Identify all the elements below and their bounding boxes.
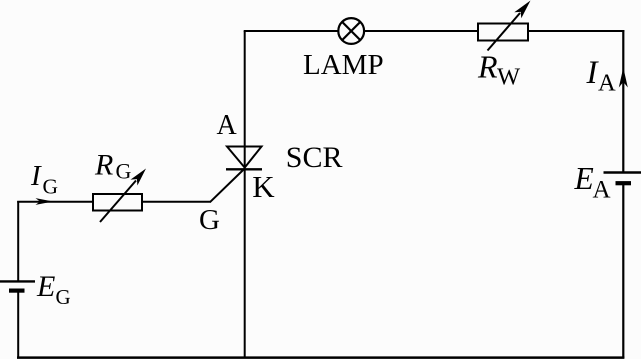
battery EA short plate (-) [616,181,632,185]
wire left upper (EG up to gate corner) [17,201,19,281]
wire top-left segment (node to lamp) [244,30,339,32]
wire right lower (EA down to bottom corner) [622,183,624,358]
wire top-middle segment (lamp to RW) [364,30,478,32]
anode wire (top node down through SCR) [244,31,246,168]
wire bottom [17,356,624,359]
svg-text:E: E [574,161,594,196]
rheostat RG wiper arrow [100,169,146,223]
svg-text:R: R [94,149,113,182]
wire right upper (corner down to EA) [622,30,624,173]
SCR cathode bar [226,168,262,170]
rheostat RW wiper arrow [488,1,531,51]
gate wire right segment [142,201,211,203]
rheostat RG body [93,194,142,211]
svg-text:G: G [56,285,71,309]
battery EG long plate (+) [0,280,35,282]
svg-text:R: R [477,49,498,85]
current arrow IA [619,68,628,88]
svg-text:I: I [30,160,42,192]
svg-text:A: A [593,177,611,204]
gate lead diagonal to SCR cathode [210,168,245,202]
battery EG short plate (-) [9,289,25,293]
svg-text:A: A [217,110,238,141]
lamp DS1 (circle with X) [338,18,364,44]
svg-text:K: K [252,169,275,204]
rheostat RW body [478,24,528,41]
gate wire left segment [17,201,93,203]
svg-text:E: E [36,270,55,303]
svg-text:G: G [43,175,59,199]
svg-text:A: A [598,70,616,97]
svg-text:G: G [199,204,220,236]
wire top-right segment (RW to corner) [528,30,624,32]
svg-text:W: W [497,64,521,91]
wire left lower (bottom corner up to EG) [17,291,19,358]
svg-text:LAMP: LAMP [303,49,384,81]
current arrow IG [36,198,54,205]
SCR triangle [227,147,262,168]
cathode wire (SCR down to bottom wire) [244,169,246,358]
battery EA long plate (+) [604,171,641,173]
svg-text:SCR: SCR [286,141,343,174]
svg-text:G: G [116,159,132,184]
